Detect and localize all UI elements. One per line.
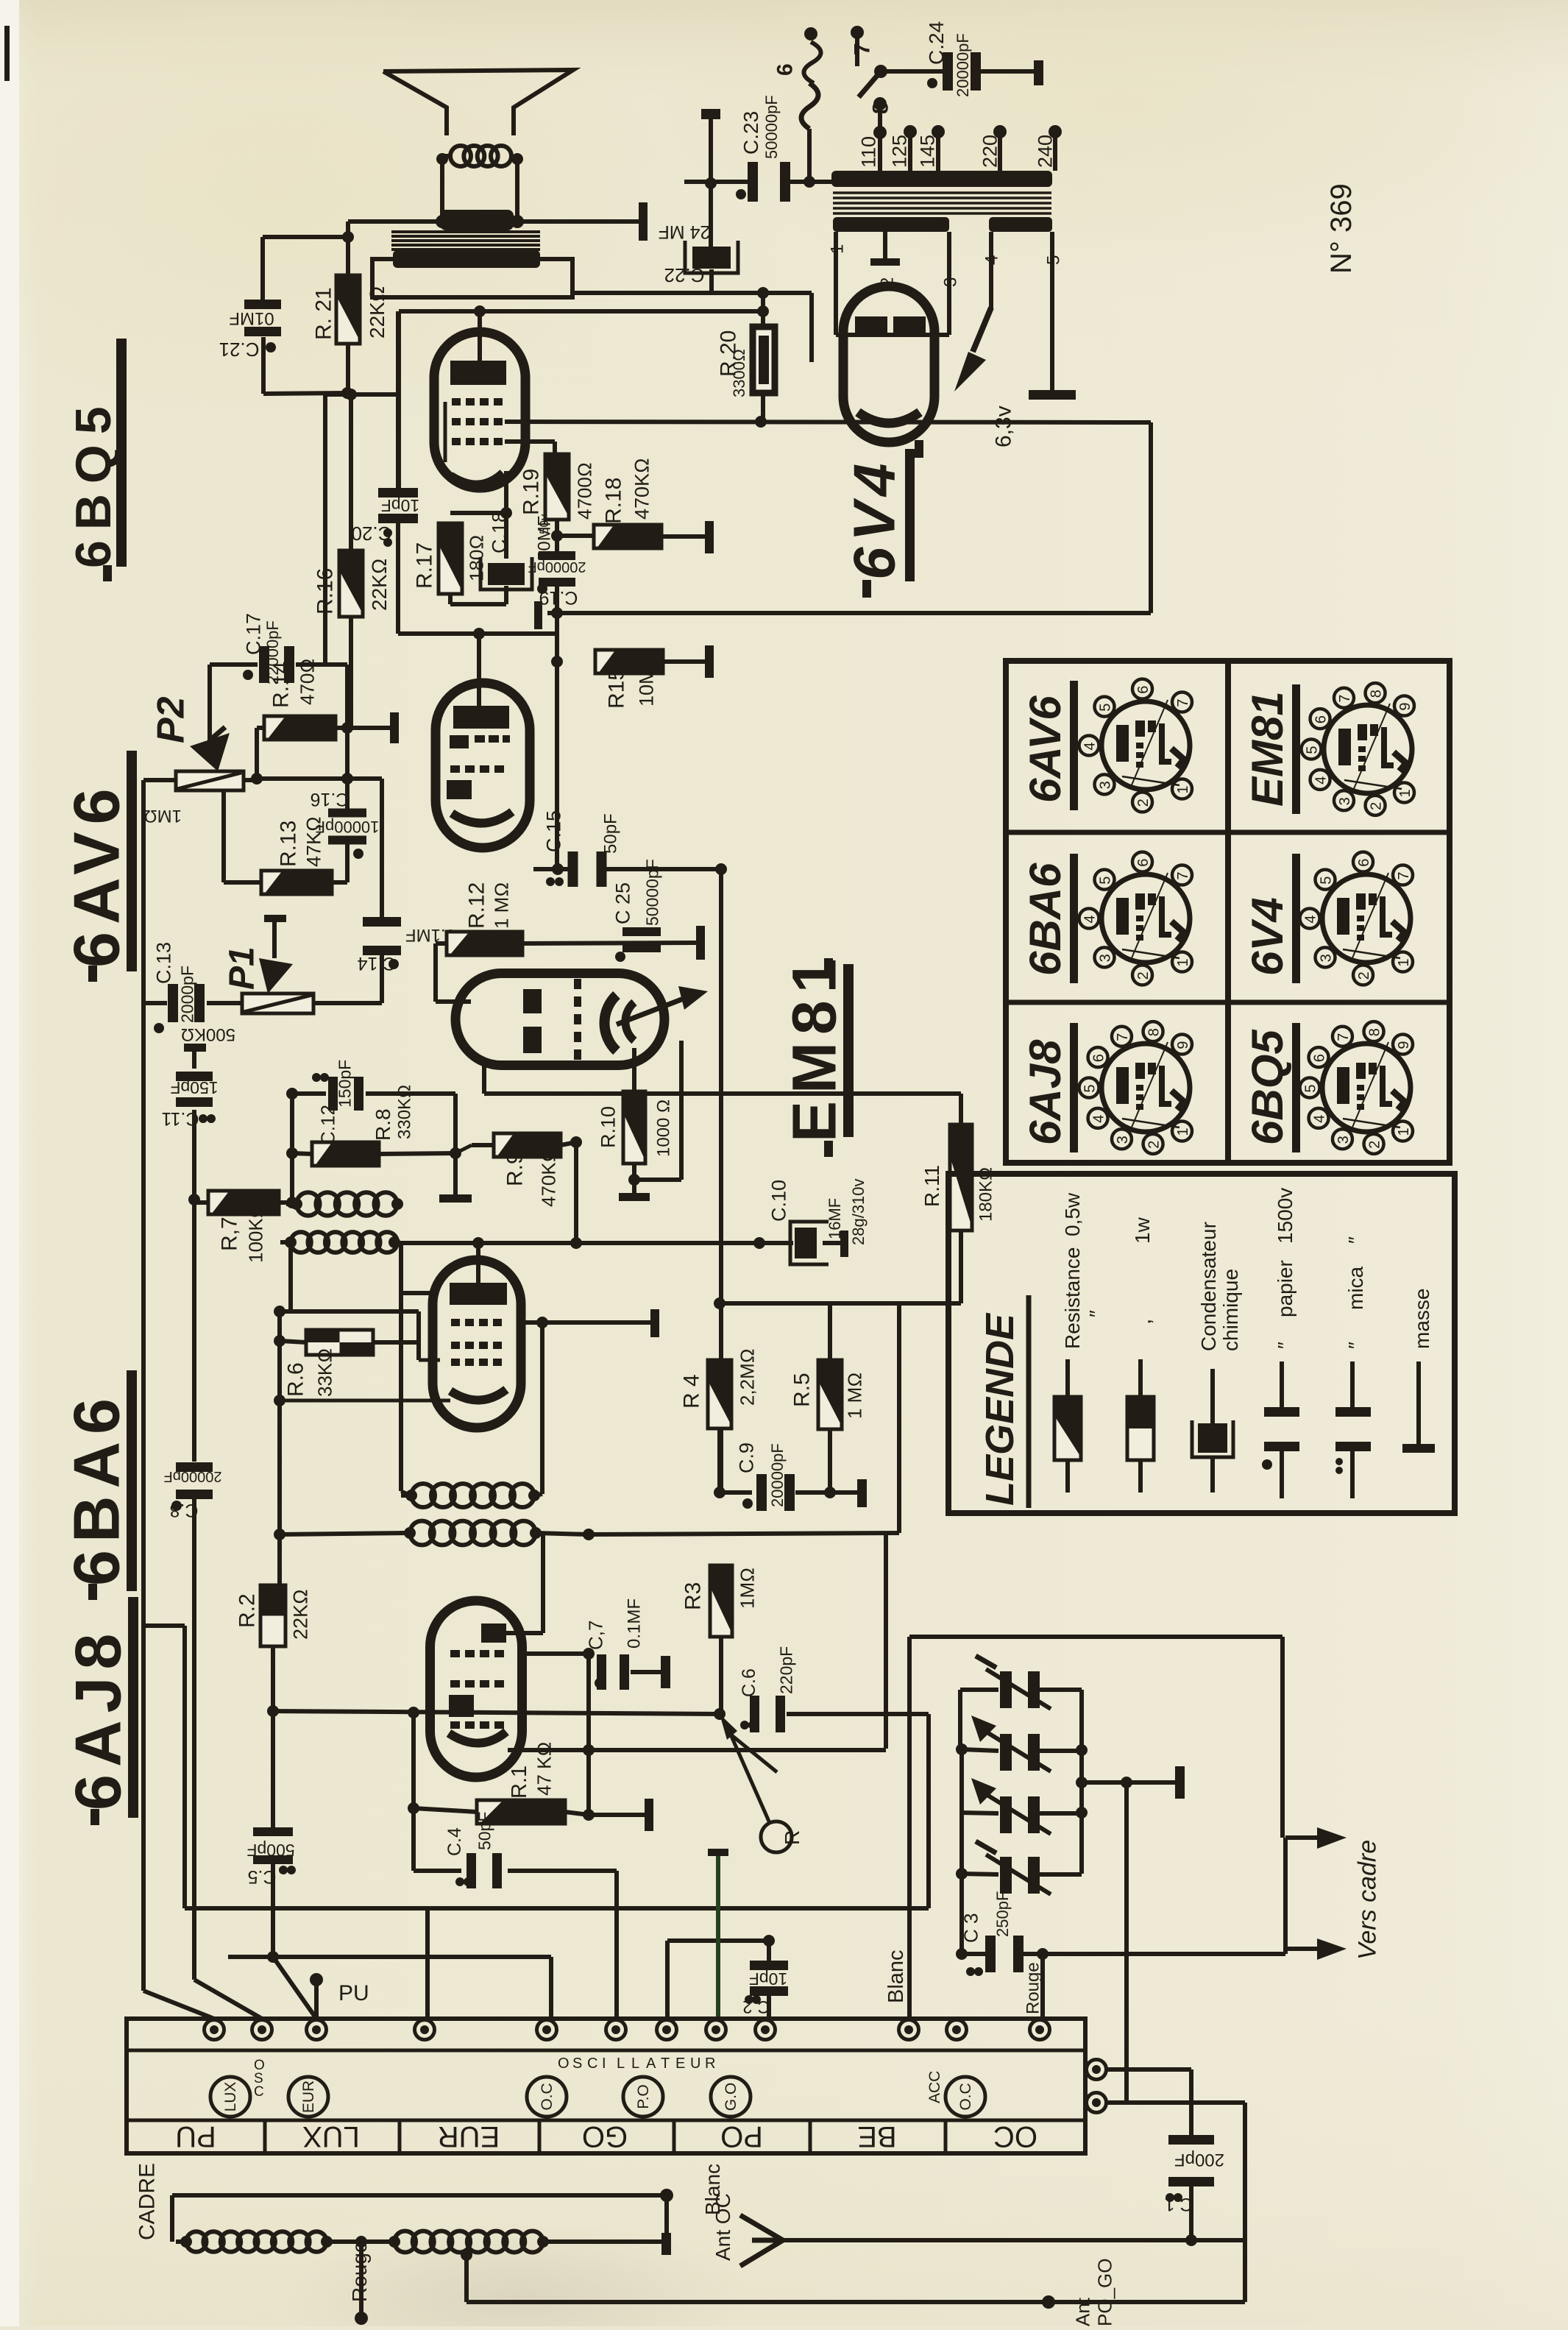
svg-text:R.14: R.14 [269,662,294,708]
svg-text:4: 4 [1313,776,1329,785]
svg-text:20000pF: 20000pF [164,1468,222,1484]
svg-text:C.23: C.23 [739,111,762,155]
svg-text:100KΩ: 100KΩ [245,1203,267,1263]
svg-text:3: 3 [1318,954,1334,962]
svg-text:1: 1 [1175,785,1191,793]
svg-text:C.21: C.21 [219,339,260,361]
svg-text:LEGENDE: LEGENDE [978,1312,1022,1506]
svg-text:47 KΩ: 47 KΩ [533,1742,556,1796]
svg-text:3: 3 [1337,797,1353,805]
svg-text:10MΩ: 10MΩ [635,653,657,707]
svg-text:C.13: C.13 [152,942,174,984]
svg-text:Ant: Ant [1072,2297,1094,2326]
svg-text:6: 6 [773,63,798,76]
svg-text:8: 8 [1146,1028,1162,1036]
svg-text:LUX: LUX [302,2120,360,2153]
svg-text:P2: P2 [149,696,192,743]
svg-text:2: 2 [1366,1141,1383,1149]
svg-text:OC: OC [993,2120,1037,2153]
svg-text:R.11: R.11 [920,1165,943,1207]
svg-text:3: 3 [1115,1136,1131,1144]
svg-text:6AV6: 6AV6 [60,781,132,968]
svg-text:T: T [661,2055,670,2072]
svg-text:200pF: 200pF [1174,2150,1224,2170]
svg-text:L: L [617,2055,625,2072]
svg-text:1MΩ: 1MΩ [143,806,182,826]
svg-text:50pF: 50pF [600,813,620,854]
svg-text:125: 125 [888,135,910,168]
svg-text:Rouge: Rouge [348,2241,371,2302]
svg-text:10000pF: 10000pF [316,818,380,836]
svg-text:110: 110 [857,136,879,168]
svg-text:EM81: EM81 [779,952,848,1142]
svg-text:3: 3 [940,277,960,287]
svg-text:20000pF: 20000pF [954,33,972,97]
svg-text:5: 5 [1302,1084,1319,1092]
svg-text:C.18: C.18 [488,511,510,553]
svg-text:1: 1 [1396,1127,1412,1136]
svg-text:1500v: 1500v [1274,1188,1296,1244]
svg-text:R.2: R.2 [235,1593,260,1628]
svg-text:1: 1 [1397,789,1413,797]
svg-text:Rouge: Rouge [1023,1962,1043,2014]
svg-text:C,7: C,7 [585,1621,607,1650]
svg-text:6BQ5: 6BQ5 [65,396,121,568]
svg-text:47KΩ: 47KΩ [302,816,324,867]
svg-text:Condensateur: Condensateur [1197,1222,1220,1351]
svg-text:50000pF: 50000pF [762,95,781,159]
svg-text:″: ″ [1344,1342,1367,1349]
svg-text:150pF: 150pF [170,1078,218,1097]
svg-text:″: ″ [1085,1310,1108,1317]
svg-text:6: 6 [1135,686,1152,694]
svg-text:C.17: C.17 [242,613,264,655]
svg-text:0,5w: 0,5w [1061,1192,1084,1236]
svg-text:EM81: EM81 [1243,691,1292,807]
svg-text:9: 9 [1397,702,1413,710]
svg-text:5: 5 [1043,255,1063,265]
svg-text:145: 145 [916,135,938,168]
svg-text:6: 6 [1313,715,1329,723]
svg-text:6AJ8: 6AJ8 [61,1626,134,1810]
svg-text:C.22: C.22 [664,264,705,286]
svg-text:4: 4 [982,255,1001,265]
svg-text:BE: BE [857,2120,896,2153]
svg-text:180Ω: 180Ω [466,535,488,581]
svg-text:ACC: ACC [926,2071,943,2103]
svg-text:O.C: O.C [957,2083,974,2110]
svg-text:E: E [675,2055,685,2072]
svg-text:R.12: R.12 [465,882,489,929]
svg-text:9: 9 [1175,1041,1191,1049]
svg-text:5: 5 [1082,1084,1098,1092]
svg-text:masse: masse [1411,1289,1433,1349]
svg-text:C 25: C 25 [611,882,634,924]
svg-text:R.1: R.1 [508,1766,531,1799]
svg-text:C.16: C.16 [311,789,350,810]
svg-text:5: 5 [1097,704,1113,712]
svg-text:R,7: R,7 [218,1217,242,1251]
svg-text:1w: 1w [1131,1217,1154,1244]
svg-text:U: U [690,2055,700,2072]
svg-text:250pF: 250pF [993,1891,1012,1937]
svg-text:6AJ8: 6AJ8 [1021,1039,1070,1145]
svg-text:470KΩ: 470KΩ [631,458,653,520]
svg-text:500KΩ: 500KΩ [181,1024,235,1044]
svg-text:4: 4 [1082,742,1098,750]
svg-text:Vers cadre: Vers cadre [1353,1840,1381,1960]
svg-text:22KΩ: 22KΩ [368,559,391,611]
svg-text:2: 2 [1146,1141,1162,1149]
svg-text:C 3: C 3 [960,1913,982,1943]
svg-text:PU: PU [175,2120,216,2153]
svg-text:1: 1 [827,244,847,254]
svg-text:22KΩ: 22KΩ [366,286,389,339]
svg-text:R15: R15 [605,668,629,709]
svg-text:C.24: C.24 [925,21,948,65]
svg-text:1MΩ: 1MΩ [737,1568,759,1609]
svg-text:R: R [705,2055,715,2072]
svg-text:O: O [558,2055,570,2072]
svg-text:LUX: LUX [222,2082,239,2112]
svg-text:Blanc: Blanc [701,2164,724,2215]
svg-text:220: 220 [979,135,1001,168]
svg-text:7: 7 [1335,1033,1352,1041]
svg-text:7: 7 [1337,695,1353,703]
svg-text:0.1MF: 0.1MF [624,1598,644,1649]
svg-text:220pF: 220pF [777,1646,796,1694]
svg-text:7: 7 [1175,871,1191,879]
svg-text:C.4: C.4 [444,1827,465,1856]
svg-text:28g/310v: 28g/310v [849,1178,868,1245]
svg-text:16MF: 16MF [826,1198,844,1239]
svg-text:22KΩ: 22KΩ [289,1589,311,1640]
svg-text:6: 6 [1311,1054,1327,1062]
svg-text:PO: PO [720,2120,763,2153]
svg-text:C.15: C.15 [542,810,564,852]
svg-text:6V4: 6V4 [1243,897,1292,976]
svg-text:4: 4 [1302,915,1319,923]
svg-text:330KΩ: 330KΩ [394,1085,414,1139]
svg-text:R: R [781,1830,803,1845]
svg-text:7: 7 [851,43,875,55]
svg-text:240: 240 [1034,135,1056,168]
svg-text:1 MΩ: 1 MΩ [844,1373,866,1419]
svg-text:″: ″ [1344,1236,1367,1244]
svg-text:PO_GO: PO_GO [1094,2259,1116,2326]
svg-text:1: 1 [1175,1127,1191,1136]
svg-text:mica: mica [1344,1266,1367,1310]
svg-text:GO: GO [582,2120,628,2153]
svg-text:″: ″ [1274,1342,1296,1349]
svg-text:chimique: chimique [1219,1269,1242,1351]
svg-text:50pF: 50pF [475,1812,494,1850]
svg-text:I: I [602,2055,606,2072]
svg-text:C.10: C.10 [767,1180,790,1222]
svg-text:2: 2 [1368,802,1384,810]
svg-text:N° 369: N° 369 [1325,183,1358,274]
svg-text:R.9: R.9 [503,1152,528,1186]
svg-text:6BA6: 6BA6 [60,1391,132,1586]
svg-text:24 MF: 24 MF [659,222,711,242]
svg-text:33KΩ: 33KΩ [314,1348,336,1397]
svg-text:6: 6 [1356,859,1372,867]
svg-text:P.O: P.O [635,2084,652,2108]
svg-text:R 4: R 4 [680,1374,704,1409]
svg-text:EUR: EUR [438,2120,500,2153]
svg-text:2: 2 [1356,971,1372,980]
svg-text:C.12: C.12 [317,1105,339,1145]
svg-text:PU: PU [338,1981,369,2005]
svg-text:C: C [254,2084,264,2100]
svg-text:4: 4 [1082,915,1098,923]
svg-text:7: 7 [1175,698,1191,707]
svg-text:10pF: 10pF [749,1969,787,1989]
svg-text:5: 5 [1304,746,1320,754]
svg-text:R.5: R.5 [790,1373,815,1407]
svg-text:2: 2 [1135,971,1152,980]
svg-text:9: 9 [1396,1041,1412,1049]
svg-text:papier: papier [1274,1260,1296,1317]
svg-text:R. 21: R. 21 [312,287,336,340]
svg-text:R.6: R.6 [284,1362,308,1397]
svg-text:R.13: R.13 [277,821,301,867]
svg-text:6: 6 [1135,859,1152,867]
svg-text:Blanc: Blanc [884,1950,908,2003]
svg-text:R.17: R.17 [413,542,437,589]
svg-text:3: 3 [1097,781,1113,789]
svg-text:L: L [631,2055,639,2072]
svg-text:A: A [646,2055,656,2072]
svg-text:R3: R3 [681,1582,706,1610]
svg-text:6BQ5: 6BQ5 [1243,1029,1292,1145]
svg-text:6,3v: 6,3v [992,406,1016,447]
svg-text:6AV6: 6AV6 [1021,695,1070,803]
svg-text:S: S [572,2055,582,2072]
svg-text:1: 1 [1175,958,1191,966]
svg-text:6: 6 [1090,1054,1107,1062]
svg-text:C.6: C.6 [739,1668,759,1697]
svg-text:3: 3 [1097,954,1113,962]
svg-text:8: 8 [869,102,893,114]
svg-text:8: 8 [1368,690,1384,698]
svg-text:G.O: G.O [723,2083,739,2111]
svg-text:R.19: R.19 [519,469,544,515]
svg-text:470Ω: 470Ω [297,659,319,705]
svg-text:CADRE: CADRE [135,2163,160,2240]
svg-text:2: 2 [1135,798,1152,807]
svg-text:C: C [587,2055,597,2072]
svg-text:1000 Ω: 1000 Ω [653,1100,673,1158]
svg-text:C.9: C.9 [735,1442,757,1473]
svg-text:20000pF: 20000pF [528,559,586,575]
svg-text:7: 7 [1396,871,1412,879]
svg-text:1: 1 [1396,958,1412,966]
svg-text:5: 5 [1318,877,1334,885]
svg-text:4700Ω: 4700Ω [574,462,596,520]
svg-text:6V4: 6V4 [842,458,907,580]
svg-text:R.10: R.10 [597,1106,619,1148]
svg-text:500pF: 500pF [246,1841,294,1860]
svg-text:470KΩ: 470KΩ [538,1147,560,1207]
svg-text:,: , [1132,1319,1156,1325]
svg-text:O.C: O.C [539,2083,556,2110]
svg-text:6BA6: 6BA6 [1021,863,1070,976]
svg-text:EUR: EUR [300,2081,317,2113]
svg-text:10pF: 10pF [381,496,419,515]
svg-text:P1: P1 [223,946,262,990]
svg-text:20000pF: 20000pF [768,1443,787,1507]
svg-text:2000pF: 2000pF [178,966,197,1023]
svg-text:R.18: R.18 [602,478,626,524]
svg-text:2,2MΩ: 2,2MΩ [737,1348,759,1406]
svg-text:50000pF: 50000pF [643,859,662,926]
svg-text:5: 5 [1097,877,1113,885]
svg-text:Resistance: Resistance [1061,1247,1084,1349]
svg-text:4: 4 [1311,1115,1327,1123]
svg-text:1 MΩ: 1 MΩ [491,882,513,929]
svg-text:7: 7 [1115,1033,1131,1041]
svg-text:4: 4 [1090,1115,1107,1123]
svg-text:R.8: R.8 [372,1108,394,1141]
svg-text:8: 8 [1366,1028,1383,1036]
svg-text:3: 3 [1335,1136,1352,1144]
svg-text:150pF: 150pF [336,1060,355,1108]
svg-text:01MF: 01MF [229,308,274,328]
svg-text:3300Ω: 3300Ω [730,349,748,397]
